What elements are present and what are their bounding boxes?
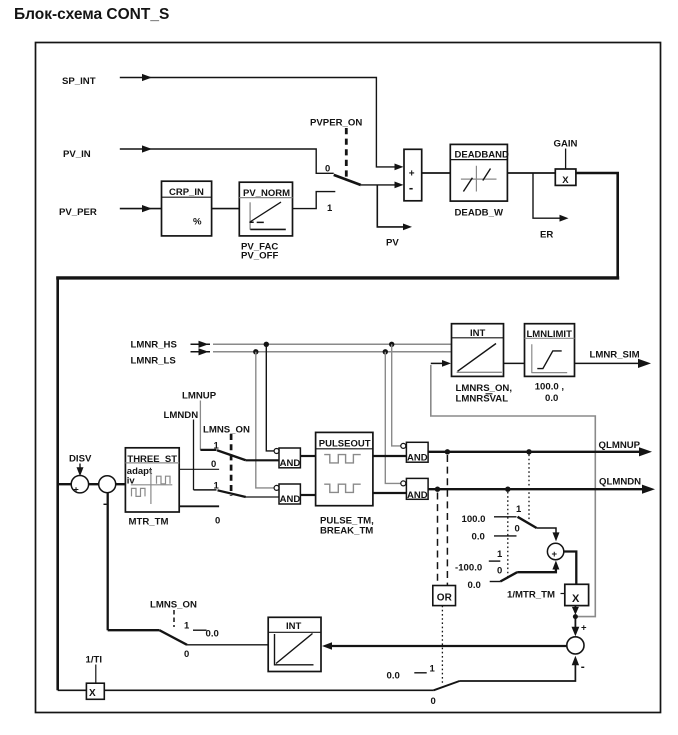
svg-text:0.0: 0.0 (387, 671, 400, 682)
svg-text:X: X (89, 688, 96, 699)
wire LMNDN drop (193, 420, 195, 490)
junction QLMNDN left (435, 487, 440, 492)
control dashed QLMNDN to OR (437, 493, 439, 586)
svg-text:0: 0 (211, 459, 216, 470)
wire bold error path right and down (576, 172, 618, 277)
block PV_NORM (239, 182, 292, 236)
contact 0 value switch upper (494, 535, 517, 537)
big summing circle (567, 637, 584, 654)
gate AND4 (401, 478, 428, 500)
wire PV_PER to CRP_IN (120, 205, 162, 212)
switch blade upper (217, 450, 246, 460)
svg-text:0: 0 (497, 565, 502, 576)
svg-text:1/TI: 1/TI (86, 655, 103, 666)
svg-text:CRP_IN: CRP_IN (169, 187, 204, 198)
svg-text:%: % (193, 217, 202, 228)
svg-text:+: + (73, 484, 79, 495)
wire LMNUP drop (199, 401, 201, 450)
control dotted OR to bottom switch (441, 606, 443, 683)
wire QLMNDN output (428, 485, 655, 494)
svg-text:LMNRS_ON,: LMNRS_ON, (456, 383, 513, 394)
wire summer to 1/MTR_TM multiplier (564, 552, 577, 585)
control dashdot LMNS_ON bottom (173, 610, 175, 627)
svg-text:INT: INT (286, 621, 302, 632)
svg-text:PV_PER: PV_PER (59, 207, 97, 218)
svg-text:0.0: 0.0 (545, 393, 558, 404)
svg-text:PVPER_ON: PVPER_ON (310, 118, 362, 129)
svg-text:0.0: 0.0 (206, 629, 219, 640)
svg-text:LMNS_ON: LMNS_ON (203, 425, 250, 436)
svg-text:DISV: DISV (69, 454, 92, 465)
svg-text:AND: AND (280, 494, 301, 505)
svg-text:1: 1 (327, 203, 333, 214)
wire PV_IN to switch contact 0 (120, 145, 334, 173)
svg-text:PV: PV (386, 238, 399, 249)
svg-text:1: 1 (430, 663, 436, 674)
svg-text:+: + (552, 549, 558, 560)
wire LMNR_HS drop to AND3 bubble (392, 344, 401, 446)
wire DEADBAND to gain multiplier (507, 172, 555, 174)
svg-text:0: 0 (215, 516, 220, 527)
switch blade PVPER_ON (334, 175, 361, 185)
svg-text:QLMNDN: QLMNDN (599, 477, 641, 488)
wire value switch upper to summer (537, 528, 560, 541)
svg-text:AND: AND (407, 490, 428, 501)
svg-text:GAIN: GAIN (554, 139, 578, 150)
switch blade value upper (518, 517, 537, 528)
wire stub into summing circle 1 (58, 483, 72, 485)
wire LMNR_HS (191, 341, 452, 348)
control dotted QLMNUP to value switch (528, 455, 530, 522)
summing circle right (547, 543, 563, 560)
wire AND1 to PULSEOUT (300, 455, 315, 457)
svg-text:+: + (581, 623, 587, 634)
svg-text:AND: AND (407, 453, 428, 464)
wire circle1 to circle2 (89, 483, 99, 485)
switch blade bottom (434, 681, 460, 690)
wire feedback vertical to circle2 (107, 493, 109, 631)
svg-text:ER: ER (540, 230, 553, 241)
wire INT to LMNLIMIT (504, 362, 525, 364)
junction QLMNUP right (526, 449, 531, 454)
svg-text:0: 0 (184, 649, 189, 660)
svg-text:X: X (572, 593, 580, 605)
svg-text:PV_OFF: PV_OFF (241, 251, 278, 262)
switch blade lower (218, 490, 246, 497)
svg-text:DEADB_W: DEADB_W (455, 208, 504, 219)
gate OR (433, 586, 456, 606)
wire arrow into INT input (431, 360, 451, 367)
junction LMNR_LS left (253, 349, 258, 354)
summer block (404, 149, 422, 201)
svg-text:100.0 ,: 100.0 , (535, 381, 565, 392)
svg-text:0: 0 (515, 523, 520, 534)
block CRP_IN (162, 181, 212, 236)
contact 1 value switch upper (494, 516, 517, 518)
wire LMNR_LS (191, 348, 452, 355)
svg-text:MTR_TM: MTR_TM (129, 517, 169, 528)
wire LMNR_HS drop to AND1 bubble (266, 344, 274, 451)
wire PV_NORM to switch contact 1 (293, 192, 336, 209)
svg-text:-: - (581, 659, 585, 673)
svg-text:Блок-схема CONT_S: Блок-схема CONT_S (14, 6, 169, 23)
svg-text:OR: OR (437, 593, 453, 604)
wire LMNR_LS drop to AND2 bubble (256, 352, 274, 488)
block PULSEOUT (316, 432, 373, 505)
contact 1 upper switch (200, 449, 216, 451)
wire PULSEOUT to AND4 (373, 492, 407, 494)
svg-text:-: - (409, 180, 413, 195)
multiplier X 1/TI (86, 683, 104, 699)
wire ER branch with arrow (533, 173, 569, 222)
contact 1 lower switch (194, 489, 217, 491)
svg-text:PV_IN: PV_IN (63, 149, 91, 160)
control dotted QLMNDN to value switch (507, 492, 509, 578)
junction LMNR_HS right (389, 342, 394, 347)
svg-text:0: 0 (325, 164, 330, 175)
wire value switch lower to summer (517, 561, 559, 573)
svg-text:0: 0 (431, 696, 436, 707)
block DEADBAND (450, 144, 509, 201)
control line PVPER_ON dashed (345, 128, 348, 177)
junction QLMNUP left (445, 449, 450, 454)
wire LMNR_LS drop to AND4 bubble (385, 352, 400, 484)
wire THREE_ST lower output (179, 505, 219, 507)
wire SP_INT to summer plus input (120, 74, 404, 170)
gate AND1 (274, 448, 300, 469)
svg-text:QLMNUP: QLMNUP (599, 440, 641, 451)
multiplier X GAIN (555, 169, 576, 186)
svg-text:BREAK_TM: BREAK_TM (320, 526, 373, 537)
wire AND2 to PULSEOUT (300, 494, 315, 496)
wire LMNR_SIM output (575, 359, 652, 368)
svg-text:1/MTR_TM: 1/MTR_TM (507, 590, 555, 601)
wire multiplier down to big summer (572, 606, 580, 637)
switch blade LMNS_ON bottom (159, 630, 187, 645)
svg-text:LMNR_LS: LMNR_LS (131, 356, 177, 367)
summing circle 2 (99, 476, 116, 493)
svg-text:+: + (409, 168, 415, 179)
svg-text:1: 1 (497, 549, 503, 560)
wire CRP_IN to PV_NORM (212, 208, 240, 210)
wire PULSEOUT to AND3 (373, 455, 407, 457)
svg-text:X: X (562, 175, 569, 186)
block INT motor simulation (452, 324, 504, 377)
svg-text:0.0: 0.0 (472, 532, 485, 543)
wire big summer to bottom INT (322, 642, 567, 649)
contact 1 value switch lower (489, 560, 501, 562)
wire bold error bus horizontal (56, 276, 619, 279)
svg-text:1: 1 (516, 504, 522, 515)
block LMNLIMIT (525, 324, 575, 377)
wire GAIN to multiplier (565, 149, 567, 170)
control line LMNS_ON dashed (230, 434, 233, 496)
svg-text:-: - (103, 497, 107, 511)
wire LMNS_ON switch to feedback vertical (108, 629, 160, 631)
svg-text:LMNUP: LMNUP (182, 391, 217, 402)
switch blade value lower (500, 572, 517, 581)
wire INT bottom to LMNS_ON switch (187, 644, 268, 646)
contact 1 bottom switch (414, 672, 426, 674)
wire bottom from 1/TI to switch (104, 689, 433, 691)
wire summer to DEADBAND (422, 172, 451, 174)
block THREE_ST (125, 448, 179, 512)
svg-text:LMNS_ON: LMNS_ON (150, 600, 197, 611)
junction gray takeoff (573, 614, 578, 619)
svg-text:100.0: 100.0 (462, 514, 486, 525)
wire bottom switch to big summer minus (460, 656, 580, 681)
svg-text:PULSEOUT: PULSEOUT (319, 439, 371, 450)
svg-text:LMNR_SIM: LMNR_SIM (590, 350, 640, 361)
junction LMNR_HS left (264, 342, 269, 347)
wire PV branch with arrow (377, 185, 412, 230)
wire switch to summer minus input (361, 182, 404, 189)
contact 0 value switch lower (490, 581, 501, 583)
gate AND2 (274, 484, 300, 505)
wire bold left vertical (56, 277, 59, 691)
svg-text:0.0: 0.0 (468, 580, 481, 591)
multiplier X 1/MTR_TM (565, 584, 589, 605)
svg-text:1: 1 (184, 621, 190, 632)
svg-text:LMNRSVAL: LMNRSVAL (456, 394, 509, 405)
svg-text:LMNR_HS: LMNR_HS (131, 340, 178, 351)
control dashed QLMNUP to OR (446, 455, 448, 586)
wire gray feedback to INT (431, 365, 596, 617)
svg-text:AND: AND (280, 458, 301, 469)
wire DISV arrow (77, 464, 84, 477)
wire stub to 1/TI multiplier (58, 689, 87, 691)
wire upper switch to AND1 (246, 459, 279, 461)
wire THREE_ST upper output (179, 468, 219, 470)
wire QLMNUP output (428, 447, 652, 456)
gate AND3 (401, 442, 428, 463)
wire lower switch to AND2 (246, 496, 279, 498)
block INT bottom (268, 617, 321, 671)
svg-text:SP_INT: SP_INT (62, 76, 96, 87)
svg-text:-100.0: -100.0 (455, 563, 482, 574)
contact 1 bottom LMNS switch (193, 629, 207, 631)
summing circle 1 (71, 476, 88, 496)
junction QLMNDN right (505, 487, 510, 492)
wire circle2 to THREE_ST (116, 483, 126, 485)
junction LMNR_LS right (383, 349, 388, 354)
